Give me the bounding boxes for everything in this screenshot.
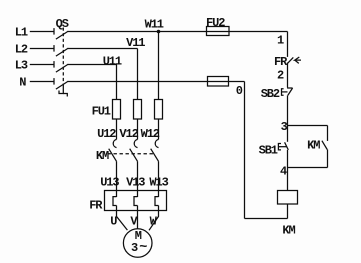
fuse FU1b body (134, 100, 142, 120)
pushbutton SB2 actuator bracket (282, 89, 284, 95)
svg-text:U13: U13 (100, 175, 119, 189)
fuse FU1a body (113, 100, 121, 120)
svg-text:SB2: SB2 (261, 87, 280, 101)
wire coil bottom (287, 204, 289, 219)
wire node 3 segment (287, 95, 289, 141)
svg-text:KM: KM (307, 138, 320, 152)
motor M1 circle (123, 229, 152, 258)
wire V13 segment (137, 161, 139, 197)
wire motor lead U (117, 206, 128, 231)
svg-text:~: ~ (139, 241, 147, 256)
wire rail L2 (68, 48, 138, 50)
svg-text:KM: KM (282, 224, 295, 238)
node W11 junction dot (157, 30, 161, 34)
svg-text:FR: FR (89, 198, 103, 212)
switch QS pole 2 blade (56, 48, 68, 56)
auxiliary contact KM upper wire (327, 126, 329, 141)
pushbutton SB2 plunger (282, 91, 288, 93)
svg-text:U11: U11 (103, 54, 122, 68)
pushbutton SB1 plunger (278, 146, 286, 148)
contactor KM main contact 2 arc (134, 139, 137, 147)
wire control bottom rail (245, 218, 288, 220)
thermal contact FR blade (287, 57, 293, 63)
contactor KM main contact 1 blade (109, 149, 117, 162)
auxiliary contact KM lower wire (327, 150, 329, 168)
coil KM body (278, 191, 298, 205)
wire node 2 segment (287, 63, 289, 88)
svg-text:L1: L1 (15, 26, 28, 40)
wire L1 input (30, 31, 54, 33)
thermal relay FR heater 1 (113, 197, 117, 206)
contactor KM linkage dashed line (108, 153, 156, 155)
contactor KM main contact 1 arc (113, 139, 116, 147)
fuse FU1c body (155, 100, 163, 120)
switch QS pole 3 fixed contact tick (53, 61, 55, 68)
switch QS pole 1 fixed contact tick (53, 28, 55, 34)
wire W11 drop (158, 32, 160, 101)
switch QS handle step foot (63, 94, 67, 97)
svg-text:1: 1 (277, 33, 284, 47)
svg-text:L2: L2 (15, 43, 28, 57)
contactor KM main contact 3 arc (155, 139, 158, 147)
svg-text:FU1: FU1 (92, 105, 111, 119)
wire rail N to fuse FU2b (68, 81, 245, 83)
thermal relay FR heater 3 (155, 197, 159, 206)
contactor KM main contact 3 blade (151, 149, 159, 162)
svg-text:U12: U12 (97, 127, 116, 141)
wire motor lead W (149, 206, 159, 231)
thermal contact FR release hook lower (295, 60, 299, 63)
svg-text:W11: W11 (145, 17, 164, 31)
pushbutton SB2 top bar (287, 87, 293, 89)
wire node 4 branch to aux (288, 167, 328, 169)
wire motor lead V (137, 206, 139, 229)
wire W13 segment (158, 161, 160, 197)
switch QS pole 4 fixed contact tick (53, 78, 55, 85)
pushbutton SB1 blade (285, 142, 289, 150)
wire V12 segment (137, 119, 139, 139)
wire node 4 segment (287, 150, 289, 191)
svg-text:KM: KM (96, 149, 109, 163)
svg-text:W12: W12 (141, 127, 160, 141)
wire N input (30, 81, 54, 83)
thermal relay FR heater 2 (134, 197, 138, 206)
wire U13 segment (116, 161, 118, 197)
wire node 3 branch to aux (288, 125, 328, 127)
svg-text:U: U (110, 214, 117, 228)
thermal relay FR box (105, 191, 167, 211)
fuse FU2b body (208, 77, 229, 87)
thermal contact FR release hook (295, 57, 301, 60)
svg-text:2: 2 (277, 68, 284, 82)
svg-text:V11: V11 (126, 36, 145, 50)
svg-text:4: 4 (280, 165, 287, 179)
auxiliary contact KM blade (322, 141, 327, 150)
svg-text:V13: V13 (126, 175, 145, 189)
svg-text:N: N (19, 76, 26, 90)
wire control column top (287, 32, 289, 57)
switch QS pole 2 fixed contact tick (53, 45, 55, 52)
svg-text:3: 3 (281, 120, 288, 134)
wire L3 input (30, 64, 54, 66)
fuse FU2a body (207, 27, 230, 36)
wire L2 input (30, 48, 54, 50)
svg-text:W13: W13 (149, 175, 168, 189)
wire U11 drop (116, 65, 118, 101)
switch QS handle step (59, 84, 63, 94)
pushbutton SB2 blade (288, 88, 293, 95)
wire W12 segment (158, 119, 160, 139)
svg-text:L3: L3 (15, 59, 28, 73)
wire control return vertical (244, 82, 246, 219)
svg-text:V12: V12 (119, 127, 138, 141)
svg-text:3: 3 (131, 241, 138, 255)
wire rail L3 (68, 64, 117, 66)
switch QS pole 4 blade (56, 81, 68, 89)
switch QS pole 1 blade (56, 31, 68, 39)
svg-text:FR: FR (274, 55, 288, 69)
wire U12 segment (116, 119, 118, 139)
svg-text:SB1: SB1 (259, 144, 278, 158)
switch QS pole 3 blade (56, 64, 68, 72)
wire rail L1 to control corner (68, 31, 288, 33)
pushbutton SB1 actuator bracket (278, 144, 281, 150)
wire V11 drop (137, 49, 139, 101)
svg-text:FU2: FU2 (206, 16, 225, 30)
switch QS linkage dashed line (62, 28, 64, 85)
svg-text:0: 0 (236, 84, 243, 98)
svg-text:QS: QS (56, 17, 69, 31)
contactor KM main contact 2 blade (130, 149, 138, 162)
